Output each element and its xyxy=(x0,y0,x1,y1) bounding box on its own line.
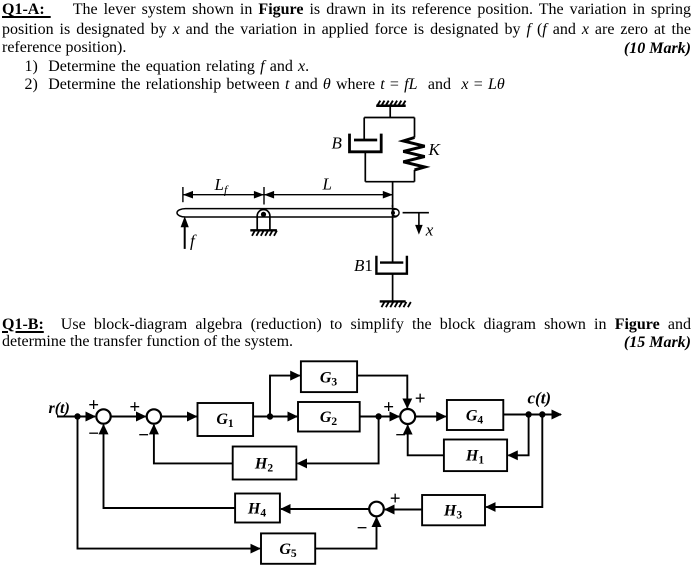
block H3 xyxy=(422,495,485,525)
wire H2 to S2 bottom xyxy=(154,425,233,464)
node output tap 1 xyxy=(525,411,531,417)
node output tap 2 xyxy=(539,411,545,417)
svg-text:+: + xyxy=(390,489,401,510)
svg-text:B: B xyxy=(332,134,343,153)
svg-text:+: + xyxy=(383,397,394,418)
block G3 xyxy=(301,361,357,392)
summing junction S1 xyxy=(96,409,110,423)
block H4 xyxy=(235,494,280,523)
damper B1 xyxy=(376,256,407,274)
wire S2 to G1 xyxy=(161,416,196,418)
svg-text:+: + xyxy=(415,388,426,409)
wire ceiling stub xyxy=(389,106,391,118)
svg-text:−: − xyxy=(395,425,406,446)
wire G2 to S3 xyxy=(360,416,399,418)
wire below spring K xyxy=(414,170,416,182)
svg-text:H3: H3 xyxy=(443,503,462,522)
wire G5 to S4 bottom xyxy=(315,518,376,549)
svg-text:G3: G3 xyxy=(320,370,338,389)
svg-text:−: − xyxy=(138,425,149,446)
block G2 xyxy=(298,402,360,432)
svg-text:+: + xyxy=(129,397,140,418)
wire below damper B1 xyxy=(392,274,394,302)
node after G1 xyxy=(267,413,273,419)
wire G4 to output xyxy=(503,414,561,416)
svg-text:B1: B1 xyxy=(354,256,373,275)
ground fixed support xyxy=(380,301,411,307)
svg-text:G2: G2 xyxy=(320,409,338,428)
block G4 xyxy=(447,400,503,430)
wire rod crossing lever xyxy=(392,205,394,263)
wire input xyxy=(57,416,95,418)
paragraph Q1-A line 3 xyxy=(2,40,691,56)
wire H1 to S3 bottom xyxy=(408,425,444,455)
paragraph Q1-B line 1 xyxy=(2,317,691,333)
displacement reference line xyxy=(403,212,429,214)
block G1 xyxy=(198,403,254,436)
svg-text:G4: G4 xyxy=(466,408,484,427)
wire right branch to spring K xyxy=(414,118,416,138)
wire left branch to damper B xyxy=(363,118,365,141)
block G5 xyxy=(261,533,315,563)
marks Q1-A xyxy=(624,40,691,58)
svg-text:r(t): r(t) xyxy=(49,400,70,417)
lever beam xyxy=(177,209,399,217)
wire H3 to S4 xyxy=(385,509,422,511)
wire G1 to G2 xyxy=(253,416,297,418)
wire tap G2out down to H2 xyxy=(298,417,379,464)
svg-text:G1: G1 xyxy=(216,411,234,430)
wire branch up to G3 xyxy=(270,376,300,417)
svg-text:−: − xyxy=(88,423,99,444)
damper B xyxy=(350,134,382,152)
wire below damper B xyxy=(364,152,366,182)
block H2 xyxy=(233,447,297,480)
svg-text:−: − xyxy=(357,518,368,539)
dimension line Lf and L xyxy=(183,187,393,205)
svg-text:x: x xyxy=(425,221,434,240)
displacement arrow x xyxy=(418,213,420,226)
wire top bar xyxy=(364,117,414,119)
wire S3 to G4 xyxy=(415,416,446,418)
svg-text:H1: H1 xyxy=(465,448,484,467)
summing junction S2 xyxy=(147,409,161,423)
ceiling fixed support xyxy=(376,101,406,106)
svg-text:K: K xyxy=(428,140,442,159)
svg-text:H4: H4 xyxy=(247,501,266,520)
svg-text:G5: G5 xyxy=(279,541,297,560)
svg-text:c(t): c(t) xyxy=(528,389,552,408)
block H1 xyxy=(444,440,507,472)
marks Q1-B xyxy=(624,334,691,352)
node input tap xyxy=(74,413,80,419)
wire bottom bar xyxy=(365,181,414,183)
svg-text:H2: H2 xyxy=(254,456,273,475)
svg-text:Lf: Lf xyxy=(214,175,229,197)
wire tap2 down to H3 xyxy=(486,415,542,508)
list item 1 xyxy=(25,59,700,75)
wire H4 to S1 bottom xyxy=(104,425,236,508)
wire tap1 down to H1 xyxy=(508,415,528,456)
svg-text:L: L xyxy=(322,175,332,194)
paragraph Q1-B line 2 xyxy=(2,334,691,350)
summing junction S3 xyxy=(400,409,415,424)
wire G3 to S3 top xyxy=(357,376,407,408)
wire center rod through lever to damper B1 xyxy=(392,182,394,207)
wire S1 to S2 xyxy=(111,416,146,418)
force arrow f xyxy=(184,225,186,249)
wire input tap down to G5 xyxy=(78,417,260,549)
spring K xyxy=(403,138,424,170)
svg-text:+: + xyxy=(88,395,99,416)
paragraph Q1-A line 2 xyxy=(2,22,691,38)
svg-text:f: f xyxy=(190,232,197,251)
pivot support xyxy=(250,210,277,236)
node after G2 xyxy=(375,413,381,419)
lever right end pin xyxy=(392,209,399,216)
paragraph Q1-A line 1 xyxy=(2,2,691,18)
wire S4 to H4 xyxy=(281,508,369,510)
list item 2 xyxy=(25,77,700,93)
block diagram xyxy=(49,361,562,564)
summing junction S4 xyxy=(369,502,384,517)
